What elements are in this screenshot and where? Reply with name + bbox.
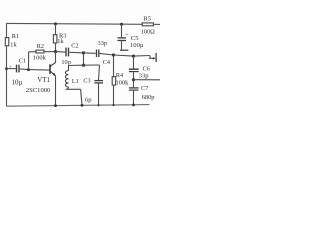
wire output tap to right edge	[134, 79, 161, 81]
output arrow and terminal	[149, 53, 156, 62]
capacitor C5 electrolytic	[118, 24, 144, 50]
resistor R1	[5, 33, 19, 48]
node O C7 / ground rail junction	[132, 104, 135, 107]
wire left vertical branch	[6, 23, 8, 106]
svg-text:680p: 680p	[142, 94, 155, 101]
node A junction left wire / input wire	[5, 67, 8, 70]
svg-text:100k: 100k	[116, 79, 130, 86]
svg-text:C2: C2	[71, 42, 78, 49]
capacitor C3	[83, 65, 103, 105]
wire output row C4 to C6	[114, 55, 134, 56]
resistor R5	[141, 15, 155, 35]
node E emitter / ground rail junction	[54, 104, 57, 107]
wire base input segment left of C1	[7, 68, 16, 70]
node L junction top rail / C5	[120, 23, 123, 26]
svg-text:C3: C3	[83, 77, 90, 84]
resistor R4	[112, 55, 129, 105]
capacitor C7	[129, 80, 155, 105]
svg-text:100µ: 100µ	[130, 42, 144, 49]
node K R4 / ground rail junction	[112, 104, 114, 106]
svg-text:100k: 100k	[33, 55, 47, 62]
svg-text:33p: 33p	[139, 72, 149, 79]
transistor VT1	[26, 52, 56, 106]
wire top rail right of R5	[153, 23, 160, 25]
svg-text:100Ω: 100Ω	[141, 29, 155, 36]
wire top supply rail	[6, 22, 142, 25]
node H L1 / ground rail junction	[81, 104, 84, 107]
wire tank drop connector	[83, 53, 85, 65]
svg-text:+: +	[9, 65, 12, 71]
capacitor C4	[84, 40, 114, 66]
node F junction C2 output row	[82, 51, 85, 54]
svg-text:L1: L1	[72, 78, 79, 85]
svg-text:R4: R4	[116, 72, 123, 79]
wire base input segment C1 to base	[20, 69, 50, 70]
node N junction C6/C7 output tap	[132, 78, 135, 81]
svg-text:VT1: VT1	[37, 76, 50, 84]
svg-text:10µ: 10µ	[12, 78, 23, 86]
wire tank top wire	[69, 64, 100, 67]
resistor R2	[29, 43, 56, 62]
wire bottom ground rail	[7, 105, 150, 107]
node M junction output row / C6	[132, 55, 135, 58]
svg-text:C1: C1	[19, 57, 26, 64]
node B junction R2 branch on base wire	[27, 68, 30, 71]
svg-text:C4: C4	[103, 59, 110, 66]
node C junction top rail / R3	[54, 22, 57, 25]
svg-text:R1: R1	[12, 33, 19, 40]
svg-text:33p: 33p	[98, 40, 108, 47]
svg-text:1k: 1k	[10, 41, 17, 48]
svg-text:C6: C6	[143, 65, 150, 72]
svg-text:1k: 1k	[57, 38, 64, 45]
inductor L1	[65, 66, 82, 106]
resistor R3	[53, 24, 66, 52]
node G junction tank wire	[82, 64, 85, 67]
node J junction output row / R4	[112, 53, 115, 56]
capacitor C2	[55, 42, 84, 66]
capacitor C1	[9, 57, 26, 86]
svg-text:+: +	[125, 32, 128, 38]
node D collector junction R2/R3/C2	[54, 50, 57, 53]
capacitor C6	[129, 56, 150, 80]
node I C3 / ground rail junction	[97, 104, 99, 106]
wire output row C6 to right	[134, 55, 150, 58]
svg-text:2SC1000: 2SC1000	[26, 87, 51, 94]
svg-text:R5: R5	[144, 15, 151, 22]
svg-text:6p: 6p	[85, 96, 92, 103]
svg-text:C7: C7	[141, 85, 148, 92]
wire R2 branch vertical	[28, 52, 30, 70]
svg-text:R2: R2	[37, 43, 44, 50]
